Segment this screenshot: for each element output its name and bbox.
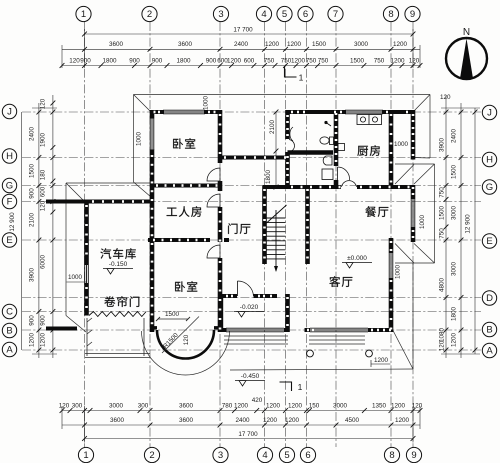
svg-text:1: 1 [299, 73, 304, 83]
bathroom fixtures [290, 115, 382, 180]
room label workers room [167, 208, 177, 216]
svg-text:G: G [486, 182, 493, 193]
svg-text:G: G [6, 181, 13, 192]
svg-text:1200: 1200 [291, 57, 306, 64]
left dimension text [9, 98, 47, 347]
svg-text:1200: 1200 [263, 417, 278, 424]
svg-text:2400: 2400 [234, 41, 249, 48]
svg-text:3000: 3000 [109, 402, 124, 409]
svg-text:J: J [487, 108, 492, 119]
svg-text:900: 900 [29, 315, 36, 326]
svg-text:1000: 1000 [394, 141, 409, 148]
svg-text:3600: 3600 [109, 41, 124, 48]
svg-text:1200: 1200 [265, 41, 280, 48]
wall D porch north with door opening [221, 294, 237, 298]
top dimension text [69, 27, 420, 65]
svg-text:120: 120 [40, 200, 47, 211]
svg-text:8: 8 [389, 450, 394, 461]
svg-text:780: 780 [222, 402, 233, 409]
terrace columns [307, 350, 391, 367]
svg-text:1200: 1200 [393, 41, 408, 48]
wall axis8 kitchen east + living east [389, 110, 394, 189]
svg-text:8: 8 [388, 9, 393, 20]
svg-text:120: 120 [69, 57, 80, 64]
svg-text:F: F [7, 197, 13, 208]
svg-text:750: 750 [306, 57, 317, 64]
wall B living south [305, 328, 311, 332]
svg-text:900: 900 [80, 57, 91, 64]
kitchen arch opening [342, 181, 357, 187]
svg-text:120: 120 [40, 98, 47, 109]
svg-text:5: 5 [284, 450, 289, 461]
svg-text:C: C [6, 307, 13, 318]
roof eave outline [66, 95, 430, 333]
svg-text:E: E [486, 236, 492, 247]
svg-text:1350: 1350 [372, 402, 387, 409]
room label bedroom2 [175, 281, 185, 291]
svg-text:9: 9 [410, 9, 415, 20]
bath arch opening [289, 140, 295, 153]
svg-text:750: 750 [374, 57, 385, 64]
driveway edges [85, 318, 150, 358]
svg-text:3000: 3000 [451, 262, 458, 277]
svg-text:1800: 1800 [176, 57, 191, 64]
staircase [267, 205, 287, 272]
svg-text:1: 1 [298, 382, 303, 392]
room label hall [228, 223, 237, 234]
svg-text:3: 3 [218, 450, 223, 461]
room label garage [100, 248, 111, 259]
room label dining [365, 206, 376, 217]
svg-text:120: 120 [438, 340, 445, 351]
door bedroom1 [207, 140, 357, 297]
svg-text:1200: 1200 [395, 417, 410, 424]
svg-text:3600: 3600 [179, 402, 194, 409]
svg-text:120: 120 [409, 57, 420, 64]
svg-text:1200: 1200 [288, 402, 303, 409]
wall G kitchen/dining north [263, 185, 342, 189]
top dimension lines [62, 29, 420, 68]
svg-text:B: B [486, 325, 492, 336]
bay radius annotation [156, 317, 199, 354]
left dimension lines [22, 95, 57, 358]
svg-text:D: D [486, 293, 493, 304]
svg-text:1080: 1080 [438, 328, 445, 343]
svg-text:3: 3 [218, 9, 223, 20]
wall axis3 hall west [218, 110, 223, 163]
svg-text:300: 300 [138, 402, 149, 409]
svg-text:1900: 1900 [40, 133, 47, 148]
svg-text:6: 6 [305, 450, 310, 461]
svg-text:1000: 1000 [136, 132, 143, 147]
svg-text:B: B [6, 326, 12, 337]
svg-text:7: 7 [333, 9, 338, 20]
svg-text:3600: 3600 [179, 417, 194, 424]
right dimension text [438, 94, 471, 351]
stair walls axis4 axis6 [262, 186, 267, 264]
west planter bars [46, 200, 72, 204]
svg-text:1200: 1200 [227, 57, 242, 64]
svg-text:1000: 1000 [68, 274, 83, 281]
svg-text:120: 120 [59, 402, 70, 409]
svg-text:1500: 1500 [350, 57, 365, 64]
svg-text:-0.020: -0.020 [240, 304, 259, 311]
rolling shutter door [89, 312, 146, 317]
door bedroom2 [207, 245, 220, 258]
svg-text:1200: 1200 [374, 357, 389, 364]
internal dims [67, 96, 427, 282]
svg-text:A: A [486, 346, 493, 357]
bottom dimension text [59, 397, 423, 438]
svg-text:1000: 1000 [419, 215, 426, 230]
svg-text:750: 750 [264, 57, 275, 64]
svg-text:2400: 2400 [235, 417, 250, 424]
svg-text:1200: 1200 [390, 57, 405, 64]
svg-text:900: 900 [40, 315, 47, 326]
kitchen counter/stove [357, 115, 382, 125]
svg-text:E: E [6, 235, 12, 246]
svg-text:12 900: 12 900 [465, 214, 472, 234]
svg-text:2400: 2400 [451, 129, 458, 144]
svg-text:H: H [6, 151, 13, 162]
svg-text:12 900: 12 900 [9, 212, 16, 232]
svg-text:H: H [486, 155, 493, 166]
room label kitchen [357, 146, 368, 156]
svg-text:900: 900 [129, 57, 140, 64]
svg-text:120: 120 [440, 94, 451, 101]
svg-text:4: 4 [262, 450, 267, 461]
wall H hall north [218, 156, 288, 160]
svg-text:120: 120 [412, 402, 423, 409]
room label living [329, 276, 340, 287]
south eave [142, 263, 414, 375]
svg-text:A: A [6, 345, 13, 356]
svg-text:1200: 1200 [285, 417, 300, 424]
bath2 door [337, 167, 339, 180]
svg-text:17 700: 17 700 [233, 27, 253, 34]
svg-text:1500: 1500 [165, 311, 180, 318]
svg-text:1200: 1200 [234, 402, 249, 409]
wall J north kitchen/bath block [286, 110, 347, 114]
svg-text:150: 150 [309, 402, 320, 409]
svg-text:420: 420 [252, 397, 263, 404]
bath divider [288, 150, 334, 155]
svg-text:1200: 1200 [287, 41, 302, 48]
right dimension lines [441, 95, 480, 358]
wall axis7 bath/kitchen [334, 110, 339, 166]
svg-text:1: 1 [81, 9, 86, 20]
svg-text:1200: 1200 [40, 333, 47, 348]
svg-text:6: 6 [303, 9, 308, 20]
wall axis2 west bedrooms [87, 110, 414, 332]
wall J north bedroom1 [46, 112, 415, 330]
bottom dimension lines [62, 406, 420, 443]
svg-text:2100: 2100 [269, 120, 276, 135]
svg-text:180: 180 [40, 169, 47, 180]
svg-text:750: 750 [318, 57, 329, 64]
svg-text:3900: 3900 [438, 138, 445, 153]
svg-text:600: 600 [40, 186, 47, 197]
svg-text:17 700: 17 700 [238, 431, 258, 438]
door workers room [207, 194, 220, 207]
svg-text:3000: 3000 [354, 41, 369, 48]
windows [85, 110, 415, 332]
svg-text:750: 750 [438, 187, 445, 198]
svg-text:5: 5 [282, 9, 287, 20]
svg-text:2: 2 [147, 9, 152, 20]
svg-text:1200: 1200 [266, 402, 281, 409]
dining bay roof [395, 164, 435, 263]
svg-text:±0.000: ±0.000 [347, 255, 367, 262]
svg-text:4: 4 [261, 9, 266, 20]
svg-text:-0.150: -0.150 [109, 261, 128, 268]
wall G bedroom1 south [148, 186, 222, 241]
svg-text:1200: 1200 [29, 333, 36, 348]
svg-text:J: J [7, 107, 12, 118]
svg-text:1800: 1800 [265, 170, 272, 185]
svg-text:1000: 1000 [203, 96, 210, 111]
wall notches [156, 184, 158, 187]
room label rolling door [104, 296, 115, 306]
svg-text:9: 9 [411, 450, 416, 461]
wall axis9 east [411, 110, 416, 160]
svg-text:1500: 1500 [438, 206, 445, 221]
svg-text:2400: 2400 [29, 127, 36, 142]
svg-text:750: 750 [438, 228, 445, 239]
svg-text:-0.450: -0.450 [241, 373, 260, 380]
svg-text:900: 900 [206, 57, 217, 64]
svg-text:3000: 3000 [333, 402, 348, 409]
svg-text:6000: 6000 [40, 255, 47, 270]
wall axis1 garage west [84, 200, 89, 266]
svg-text:N: N [463, 27, 470, 38]
svg-text:1800: 1800 [102, 57, 117, 64]
svg-text:1500: 1500 [451, 165, 458, 180]
svg-text:3000: 3000 [451, 206, 458, 221]
wall E workers room south [148, 238, 210, 242]
svg-text:2: 2 [149, 450, 154, 461]
svg-text:3600: 3600 [110, 417, 125, 424]
section mark top [280, 66, 297, 391]
svg-text:1200: 1200 [451, 333, 458, 348]
svg-text:120: 120 [183, 334, 190, 345]
svg-text:4500: 4500 [345, 417, 360, 424]
svg-text:600: 600 [244, 57, 255, 64]
entry door [237, 281, 239, 296]
svg-text:3600: 3600 [178, 41, 193, 48]
porch steps [224, 336, 365, 344]
svg-text:1500: 1500 [312, 41, 327, 48]
north arrow [446, 38, 487, 79]
svg-text:900: 900 [29, 188, 36, 199]
bedroom2 bay window [157, 330, 214, 359]
wall axis5 bath west + porch east [285, 110, 290, 139]
svg-text:1000: 1000 [395, 265, 402, 280]
svg-text:1200: 1200 [391, 402, 406, 409]
svg-text:300: 300 [72, 402, 83, 409]
svg-text:1500: 1500 [29, 164, 36, 179]
svg-text:3900: 3900 [29, 268, 36, 283]
svg-text:4800: 4800 [438, 278, 445, 293]
svg-text:1800: 1800 [451, 307, 458, 322]
svg-text:1: 1 [83, 450, 88, 461]
svg-text:900: 900 [152, 57, 163, 64]
wall F garage north [62, 200, 152, 204]
room label bedroom1 [173, 138, 183, 148]
svg-text:2100: 2100 [29, 213, 36, 228]
